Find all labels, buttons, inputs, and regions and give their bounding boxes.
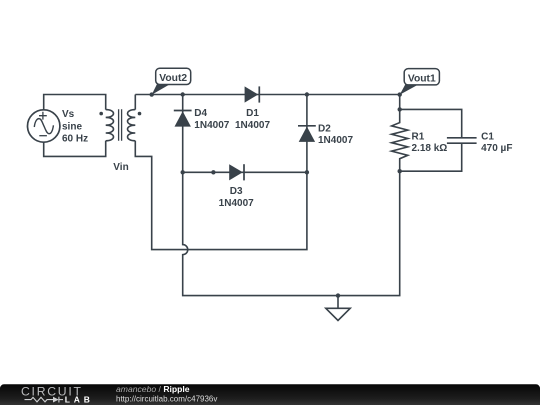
junction node dots: [150, 92, 402, 297]
svg-text:1N4007: 1N4007: [219, 198, 254, 209]
node D3 row junction: [211, 170, 215, 174]
footer logo diode glyph: [53, 397, 59, 403]
transformer primary winding: [106, 110, 114, 141]
wire source box top: [44, 95, 106, 110]
node ground junction: [336, 293, 340, 297]
svg-text:D1: D1: [246, 108, 259, 119]
node D4 top junction: [181, 92, 185, 96]
svg-text:470 µF: 470 µF: [481, 143, 512, 154]
wire D2 branch: [306, 95, 308, 173]
svg-text:amancebo / Ripple: amancebo / Ripple: [116, 384, 190, 394]
wire D4 branch: [182, 95, 184, 173]
svg-text:1N4007: 1N4007: [318, 135, 353, 146]
svg-text:http://circuitlab.com/c47936v: http://circuitlab.com/c47936v: [116, 394, 217, 403]
diode D2: [298, 126, 316, 142]
wire C1 bottom lead and RC bottom rail: [400, 143, 462, 171]
svg-text:Vin: Vin: [113, 162, 128, 173]
wire Vout1 node to RC rail: [399, 95, 401, 110]
wire secondary top lead: [134, 95, 136, 110]
svg-text:Vout2: Vout2: [159, 73, 187, 84]
svg-text:D3: D3: [230, 186, 243, 197]
net flag Vout1: [400, 69, 440, 95]
svg-text:2.18 kΩ: 2.18 kΩ: [412, 143, 448, 154]
svg-text:1N4007: 1N4007: [194, 120, 229, 131]
svg-text:LAB: LAB: [65, 394, 94, 404]
voltage source minus sign: [39, 135, 47, 137]
diode D4: [174, 111, 192, 127]
svg-text:Vs: Vs: [62, 109, 75, 120]
transformer core lines: [119, 109, 122, 141]
footer logo schematic squiggle: [25, 397, 64, 403]
node D2 top junction: [305, 92, 309, 96]
net flag Vout2: [152, 68, 191, 95]
capacitor C1 plates: [447, 138, 477, 143]
wire source box bottom: [44, 141, 106, 157]
transformer secondary phase dot: [138, 112, 142, 116]
wire transformer secondary bottom loop: [135, 141, 307, 250]
node RC rail top junction: [398, 107, 402, 111]
node RC rail bottom junction: [398, 169, 402, 173]
svg-text:1N4007: 1N4007: [235, 120, 270, 131]
transformer primary phase dot: [99, 112, 103, 116]
ground symbol: [326, 296, 350, 321]
footer bar: [0, 384, 540, 405]
node Vout1 dot: [398, 92, 402, 96]
wire RC top rail and C1 top lead: [400, 109, 462, 137]
svg-text:60 Hz: 60 Hz: [62, 134, 88, 145]
wire lower left vertical with hop over crossing: [183, 171, 400, 295]
diode D1: [245, 86, 260, 102]
svg-text:D2: D2: [318, 123, 331, 134]
wire top rail Vout2 to Vout1: [135, 94, 399, 96]
svg-text:D4: D4: [194, 108, 207, 119]
svg-text:Vout1: Vout1: [408, 74, 436, 85]
diode D3: [229, 164, 244, 180]
svg-text:sine: sine: [62, 121, 82, 132]
voltage source Vs sine symbol: [34, 119, 53, 134]
voltage source Vs circle: [28, 110, 60, 142]
voltage source plus sign: [39, 112, 47, 120]
node D2 bottom junction: [305, 170, 309, 174]
svg-text:R1: R1: [412, 132, 425, 143]
node Vout2 dot: [150, 92, 154, 96]
resistor R1: [392, 109, 408, 171]
transformer secondary winding: [128, 110, 136, 141]
svg-text:C1: C1: [481, 132, 494, 143]
node D4 bottom junction: [181, 170, 185, 174]
wire D3 row: [183, 171, 307, 173]
